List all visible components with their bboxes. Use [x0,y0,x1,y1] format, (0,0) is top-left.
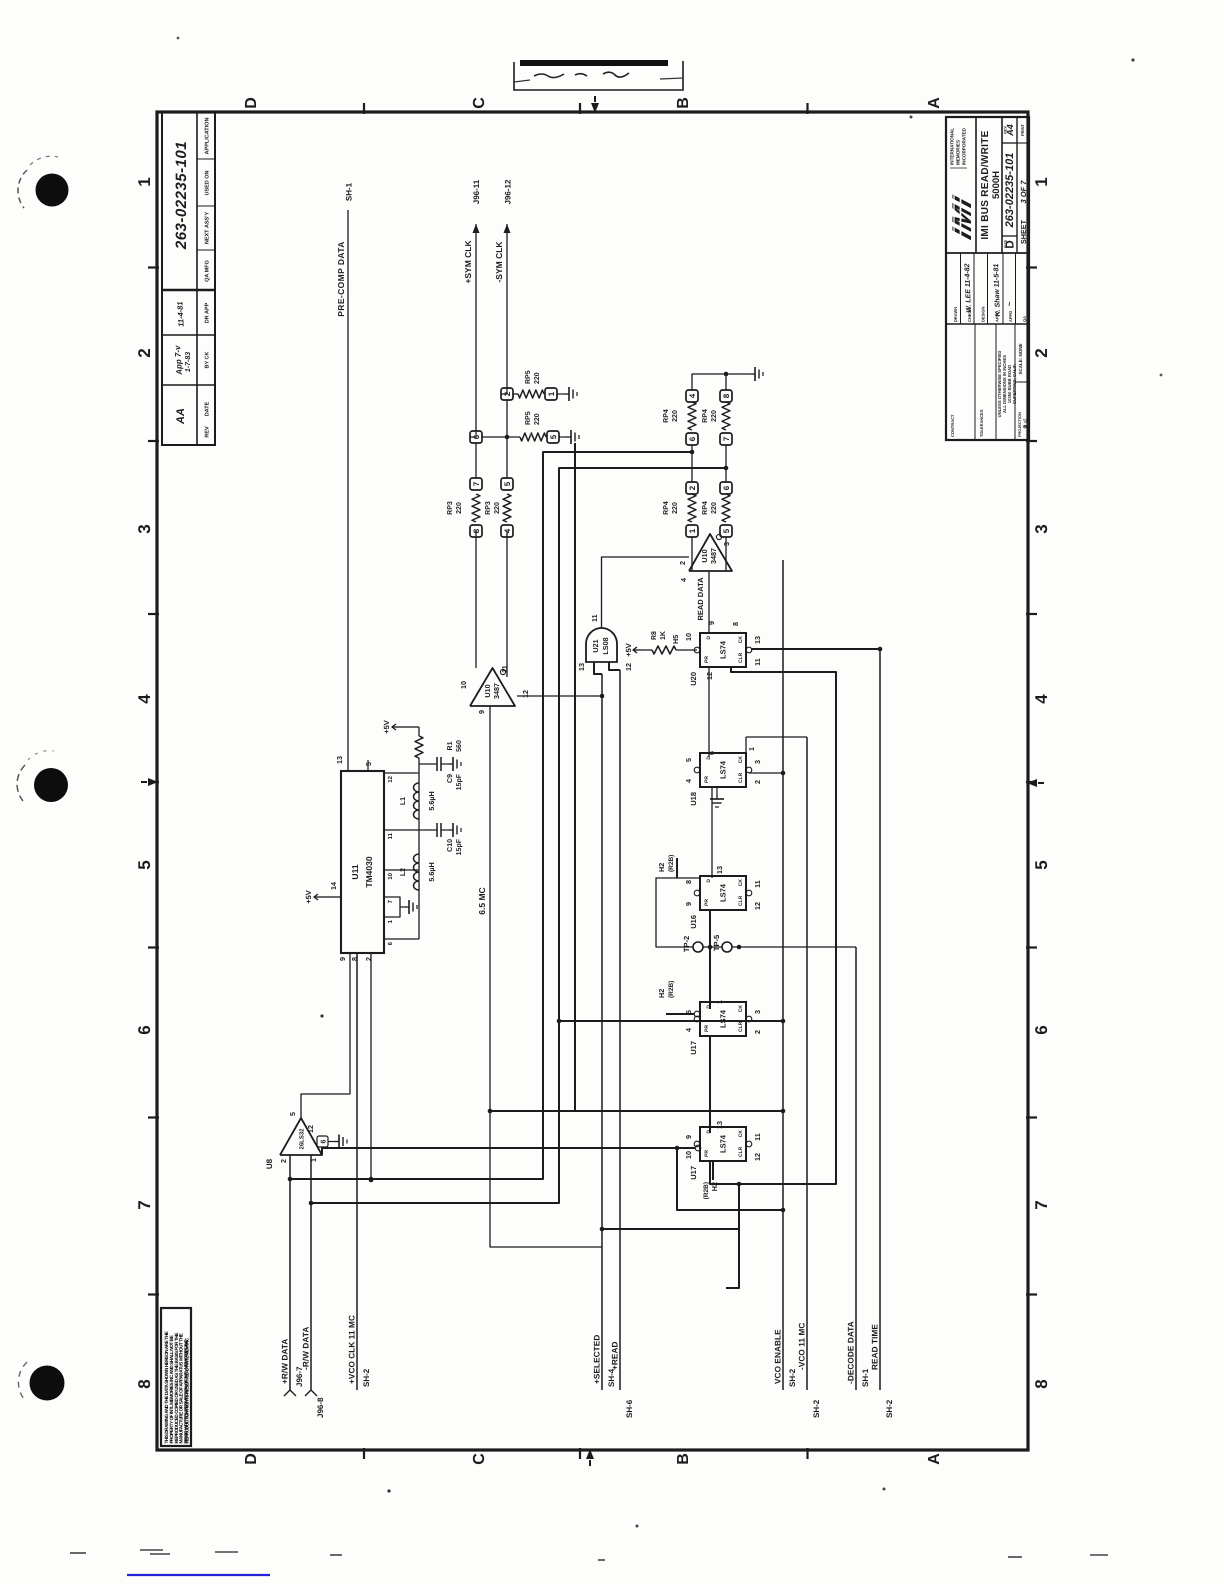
svg-text:SH-4: SH-4 [607,1368,616,1387]
wire U20 CLR to READ TIME [751,648,880,650]
resistor RP5 220 [520,433,546,441]
svg-text:L1: L1 [400,797,407,805]
svg-text:1: 1 [688,528,697,533]
wire U10.12 to +SELECTED [517,695,602,697]
svg-text:1: 1 [715,1000,724,1004]
svg-text:6: 6 [135,1025,154,1034]
op-amp U8 26LS32 [280,1118,322,1155]
svg-text:RP3: RP3 [485,501,492,515]
ground [566,436,571,438]
resistor pack RP4 row 1 [686,525,698,537]
svg-text:APPD: APPD [1008,311,1013,322]
svg-text:+5V: +5V [382,720,391,734]
resistor pack RP3 (row 5-4) [501,525,513,537]
flip-flop U18 LS74 [700,753,746,787]
svg-text:6: 6 [1032,1025,1051,1034]
svg-text:+SYM CLK: +SYM CLK [463,240,473,284]
svg-text:CLR: CLR [738,772,744,783]
resistor pack RP3 (row 7-8) [470,525,482,537]
svg-text:(R2B): (R2B) [703,1182,710,1199]
svg-text:RP4: RP4 [663,501,670,515]
wire +SYM CLK net [475,531,477,668]
svg-text:CLR: CLR [738,1146,744,1157]
svg-text:R1: R1 [447,741,454,750]
svg-text:6: 6 [722,485,731,490]
svg-text:⊕ ◁: ⊕ ◁ [1023,419,1029,429]
svg-text:3: 3 [753,1010,762,1014]
svg-text:CK: CK [738,1005,744,1013]
svg-text:C: C [471,97,488,109]
svg-text:A: A [926,1453,943,1465]
svg-text:L2: L2 [400,868,407,876]
svg-text:1: 1 [747,747,756,751]
svg-text:+5V: +5V [624,643,633,657]
wire 6.5 MC [489,706,491,1239]
svg-text:1: 1 [309,1158,318,1162]
wire [310,1155,312,1390]
wire net N6 [559,1020,783,1022]
svg-text:~: ~ [1005,301,1014,306]
wire U8 output to U11 pin 9 [301,953,350,1118]
wire U11 pin 2 [370,953,372,1180]
wire U17a-U16 [709,910,711,1009]
svg-text:U21: U21 [591,639,600,652]
wire net N2 [311,468,726,1203]
svg-text:MEMORIES: MEMORIES [956,140,961,165]
svg-text:READ TIME: READ TIME [871,1324,880,1370]
svg-text:IMI BUS READ/WRITE: IMI BUS READ/WRITE [980,130,991,239]
svg-text:13: 13 [715,1121,724,1129]
svg-text:PROJECTION: PROJECTION [1018,412,1022,437]
resistor RP5 220 [518,390,544,398]
svg-text:U16: U16 [689,915,698,929]
svg-text:3: 3 [135,524,154,533]
+5V supply [404,726,419,728]
wire [356,953,358,1390]
svg-text:BY CK: BY CK [205,351,211,368]
wire U16-U18 [711,787,713,878]
wire READ DATA [708,571,710,633]
svg-text:13: 13 [753,636,762,644]
svg-text:3: 3 [753,760,762,764]
svg-text:220: 220 [534,372,541,384]
wire net N3 U8 to U17 clock [322,1148,695,1155]
svg-text:7: 7 [472,481,481,486]
svg-text:12: 12 [387,775,394,782]
svg-text:10: 10 [684,633,693,641]
punch hole 1 [36,174,69,207]
wire net N2 branch [490,1110,783,1112]
svg-text:QA MFG: QA MFG [205,260,211,282]
svg-text:SH-1: SH-1 [345,182,354,201]
svg-text:+SELECTED: +SELECTED [593,1335,602,1384]
+5V supply [633,649,645,651]
svg-text:B: B [675,97,692,109]
svg-text:1K: 1K [660,631,667,640]
svg-text:H2: H2 [657,863,666,872]
svg-text:7: 7 [722,436,731,441]
svg-text:REPRODUCTION RIGHTS RESERVED B: REPRODUCTION RIGHTS RESERVED BY INTL MEM… [185,1337,190,1443]
svg-text:CK: CK [738,1130,744,1138]
svg-text:5.6µH: 5.6µH [427,862,436,881]
svg-text:PR: PR [704,656,710,663]
svg-text:SH-6: SH-6 [625,1399,634,1418]
svg-text:QA: QA [1022,316,1027,322]
IC U11 TM4030 [341,771,384,953]
svg-text:6: 6 [688,436,697,441]
svg-text:RP4: RP4 [663,409,670,423]
svg-text:A: A [926,97,943,109]
svg-text:DESIGN: DESIGN [981,307,986,322]
RP4 ground [692,374,750,390]
test point TP-2 [693,942,703,952]
wire -SYM CLK net [506,531,508,677]
svg-text:SH-2: SH-2 [362,1368,371,1387]
svg-text:11: 11 [590,614,599,622]
svg-text:U20: U20 [689,672,698,686]
svg-text:5: 5 [684,758,693,762]
wire [289,1155,291,1390]
svg-text:U11: U11 [350,864,360,879]
svg-text:CK: CK [738,636,744,644]
pin box 6 [317,1136,328,1147]
svg-text:2: 2 [279,1159,288,1163]
output +SYM CLK J96-11 [475,224,477,432]
svg-text:10: 10 [459,681,468,689]
svg-text:+5V: +5V [304,890,313,904]
ground [448,763,453,765]
svg-text:DR APP: DR APP [205,302,211,323]
svg-text:5: 5 [1032,860,1051,869]
capacitor C9 15pF [419,763,437,765]
wire U21 out to U10b pin 2 [602,557,690,628]
+5V supply [314,896,326,898]
svg-text:26LS32: 26LS32 [299,1128,306,1150]
svg-text:J96-11: J96-11 [472,179,481,204]
svg-text:D: D [243,97,260,109]
flip-flop U17b LS74 [700,1127,746,1161]
svg-text:4: 4 [679,578,688,582]
svg-text:U17: U17 [689,1166,698,1180]
zone ticks and labels [148,266,159,268]
notes box [161,1308,191,1446]
svg-text:13: 13 [577,663,586,671]
resistor pack RP4 row 2 [720,525,732,537]
svg-text:LS74: LS74 [719,883,728,902]
svg-text:D: D [706,636,712,640]
svg-text:J96-8: J96-8 [316,1397,325,1418]
svg-text:LS08: LS08 [601,637,610,654]
svg-text:DATE: DATE [205,401,211,416]
pins 7-1 loop and ground [384,897,400,917]
VCO tank rail [418,758,420,939]
svg-text:5: 5 [549,434,558,439]
svg-text:SH-1: SH-1 [861,1368,870,1387]
svg-text:H5: H5 [671,635,680,644]
wire [879,649,881,1390]
svg-text:C10: C10 [447,839,454,852]
flip-flop U17a LS74 [700,1002,746,1036]
svg-text:220: 220 [534,413,541,425]
svg-text:3 OF 7: 3 OF 7 [1019,180,1028,204]
svg-text:2: 2 [753,780,762,784]
svg-text:APPLICATION: APPLICATION [205,118,211,155]
svg-text:3: 3 [1032,524,1051,533]
svg-text:RP4: RP4 [702,409,709,423]
svg-text:H2: H2 [657,989,666,998]
punch hole 2 [34,768,68,802]
R8 1K pullup [676,649,697,651]
svg-text:C9: C9 [447,774,454,783]
wire [782,560,784,1390]
svg-text:13: 13 [715,866,724,874]
wire [855,947,857,1390]
svg-text:CLR: CLR [738,652,744,663]
svg-text:LS74: LS74 [719,1134,728,1153]
svg-text:2: 2 [688,485,697,490]
svg-text:8: 8 [731,622,740,626]
svg-text:220: 220 [711,410,718,422]
svg-text:560: 560 [456,740,463,752]
svg-text:9: 9 [684,1135,693,1139]
svg-text:3487: 3487 [492,683,501,699]
svg-text:LS74: LS74 [719,1009,728,1028]
svg-text:9: 9 [477,710,486,714]
svg-text:PRINT: PRINT [1020,123,1025,136]
svg-text:4: 4 [684,779,693,783]
svg-text:CLR: CLR [738,1021,744,1032]
wire U17b-U17a [709,1036,711,1133]
svg-text:D: D [706,879,712,883]
svg-text:4: 4 [503,528,512,533]
stub H2 (R2B) [712,1161,714,1180]
svg-text:2: 2 [135,348,154,357]
svg-text:6: 6 [321,1139,328,1143]
ground at U18 [716,787,718,794]
border frame [157,112,1028,1450]
capacitor C10 15pF [419,829,437,831]
svg-text:LS74: LS74 [719,760,728,779]
svg-text:2: 2 [753,1030,762,1034]
svg-text:10: 10 [684,1151,693,1159]
AND gate U21 LS08 [586,628,617,662]
output -SYM CLK J96-12 [506,224,508,388]
svg-text:9: 9 [684,902,693,906]
svg-text:2: 2 [678,561,687,565]
svg-text:5: 5 [722,528,731,533]
svg-text:220: 220 [494,502,501,514]
ground [328,1141,334,1143]
svg-text:LS74: LS74 [719,640,728,659]
ground [448,829,453,831]
svg-text:5: 5 [503,481,512,486]
svg-text:10: 10 [387,872,394,879]
svg-text:12: 12 [306,1125,315,1133]
svg-text:3487: 3487 [709,548,718,564]
svg-text:J96-12: J96-12 [504,179,513,204]
svg-text:8: 8 [684,880,693,884]
wire VCO ENABLE leg [749,772,783,774]
svg-text:U8: U8 [265,1158,274,1169]
flip-flop U16 LS74 [700,876,746,910]
svg-text:5: 5 [288,1112,297,1116]
svg-text:15pF: 15pF [456,838,463,855]
wire [806,737,808,1390]
svg-text:12: 12 [521,690,530,698]
svg-text:TP-2: TP-2 [682,936,691,952]
IMI logo [947,189,977,245]
svg-text:SIZE: SIZE [1004,239,1008,248]
svg-text:220: 220 [672,502,679,514]
svg-text:5.6µH: 5.6µH [427,791,436,810]
bottom stray marks [127,1574,270,1576]
svg-text:SCALE: NONE: SCALE: NONE [1018,343,1023,374]
svg-text:PRE-COMP DATA: PRE-COMP DATA [336,241,346,317]
svg-text:VCO ENABLE: VCO ENABLE [774,1329,783,1384]
terminal rail RP5 A [475,443,477,478]
output PRE-COMP DATA SH-1 [347,210,349,770]
wire [619,670,621,1390]
svg-text:1: 1 [547,391,556,396]
svg-text:-DECODE DATA: -DECODE DATA [847,1321,856,1384]
svg-text:8: 8 [350,957,359,961]
svg-text:8: 8 [472,528,481,533]
svg-text:RP4: RP4 [702,501,709,515]
svg-text:CK: CK [738,756,744,764]
svg-text:(R2B): (R2B) [668,981,675,998]
svg-text:C: C [471,1453,488,1465]
svg-text:+READ: +READ [611,1342,620,1370]
svg-text:4: 4 [688,393,697,398]
+5V supply pin 14 [326,896,341,898]
svg-text:RP5: RP5 [525,411,532,425]
inductor L1 5.6uH [414,810,419,819]
svg-text:14: 14 [329,882,338,890]
title block [946,117,1029,440]
svg-text:U10: U10 [700,549,709,562]
wire net N7 [574,443,576,1111]
svg-text:220: 220 [672,410,679,422]
svg-text:5: 5 [135,860,154,869]
svg-text:8: 8 [135,1379,154,1388]
svg-text:4: 4 [1032,694,1051,704]
svg-text:PR: PR [704,1150,710,1157]
svg-text:12: 12 [753,1153,762,1161]
wire -DECODE leg [656,878,856,947]
svg-text:INTERNATIONAL: INTERNATIONAL [950,128,955,165]
svg-text:U18: U18 [689,792,698,806]
label sticker top [514,61,683,90]
wires U10b to RP4 [691,537,693,571]
svg-text:U17: U17 [689,1041,698,1055]
svg-text:RP3: RP3 [447,501,454,515]
svg-text:4: 4 [135,694,154,704]
svg-text:CK: CK [738,879,744,887]
svg-text:15pF: 15pF [456,773,463,790]
svg-text:NEXT ASS'Y: NEXT ASS'Y [205,212,211,245]
svg-text:SH-2: SH-2 [812,1399,821,1418]
flip-flop U20 LS74 [700,633,746,667]
svg-text:AA: AA [175,408,187,425]
wire sq6 to +SYM out [470,436,476,438]
buffer U10 3487 (right) [689,534,732,571]
svg-text:8: 8 [722,393,731,398]
svg-text:1-7-83: 1-7-83 [185,352,192,372]
svg-text:263-02235-101: 263-02235-101 [173,141,190,250]
wire net N5 feedback loop [710,667,836,1184]
svg-text:(R2B): (R2B) [668,855,675,872]
wire net N4 [677,1148,783,1210]
svg-text:CONTRACT: CONTRACT [950,414,955,437]
ground [564,393,569,395]
svg-text:9: 9 [338,957,347,961]
svg-text:USED ON: USED ON [205,170,211,195]
svg-text:U10: U10 [483,684,492,697]
svg-text:PR: PR [704,899,710,906]
stub H2 (R2B) [676,858,678,878]
wire -VCO leg [746,736,807,738]
svg-text:REV: REV [1004,126,1008,134]
junction [708,945,713,950]
svg-text:-SYM CLK: -SYM CLK [494,241,504,283]
svg-text:4: 4 [684,1028,693,1032]
svg-text:12: 12 [753,902,762,910]
svg-text:+VCO CLK 11 MC: +VCO CLK 11 MC [348,1315,357,1384]
svg-text:B: B [675,1453,692,1465]
svg-text:TOLERANCES: TOLERANCES [979,409,984,437]
wire net N1 [290,452,692,1179]
inductor L2 5.6uH [414,881,419,890]
terminal rail RP5 B [506,400,508,478]
wire U18-U20 [708,667,710,757]
svg-text:-VCO 11 MC: -VCO 11 MC [798,1323,807,1370]
svg-text:-R/W DATA: -R/W DATA [302,1327,311,1370]
svg-text:11: 11 [753,880,762,888]
svg-text:11: 11 [387,832,394,839]
svg-text:D: D [243,1453,260,1465]
svg-text:INCORPORATED: INCORPORATED [962,127,967,165]
svg-text:13: 13 [335,756,344,764]
svg-text:6.5 MC: 6.5 MC [477,887,487,914]
svg-text:263-02235-101: 263-02235-101 [1004,153,1016,229]
svg-text:SHEET: SHEET [1019,219,1028,244]
svg-text:8: 8 [1032,1379,1051,1388]
stub H2 (R2B) [666,1013,694,1015]
svg-text:SH-2: SH-2 [885,1399,894,1418]
svg-text:SH-2: SH-2 [788,1368,797,1387]
svg-text:+R/W DATA: +R/W DATA [281,1339,290,1384]
revision table [162,112,215,445]
svg-text:PR: PR [704,776,710,783]
svg-text:DRAWN: DRAWN [953,307,958,322]
wire [601,674,603,1390]
svg-text:READ DATA: READ DATA [696,577,705,621]
svg-text:1: 1 [135,177,154,186]
buffer U10 3487 (left) [470,668,515,706]
test point TP-5 [722,942,732,952]
svg-text:R8: R8 [651,631,658,640]
svg-text:5000H: 5000H [991,171,1002,199]
svg-text:2: 2 [1032,348,1051,357]
svg-text:11: 11 [753,658,762,666]
svg-text:11-4-81: 11-4-81 [175,301,185,327]
svg-text:220: 220 [711,502,718,514]
svg-text:TP-5: TP-5 [712,935,721,951]
svg-text:12: 12 [624,663,633,671]
svg-text:RP5: RP5 [525,370,532,384]
svg-text:1: 1 [1032,177,1051,186]
svg-text:PR: PR [704,1025,710,1032]
